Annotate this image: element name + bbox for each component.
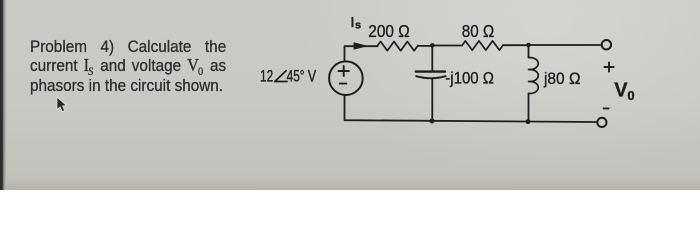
svg-text:200 Ω: 200 Ω — [368, 21, 409, 41]
svg-text:0: 0 — [627, 88, 634, 103]
svg-text:V: V — [308, 68, 316, 86]
svg-text:s: s — [355, 19, 361, 31]
svg-text:V: V — [614, 80, 628, 102]
svg-text:j80 Ω: j80 Ω — [543, 69, 580, 88]
svg-text:I: I — [351, 14, 354, 30]
svg-text:80 Ω: 80 Ω — [462, 22, 494, 41]
svg-text:45°: 45° — [287, 68, 305, 86]
svg-text:-j100 Ω: -j100 Ω — [445, 69, 494, 88]
svg-text:12: 12 — [260, 68, 273, 86]
